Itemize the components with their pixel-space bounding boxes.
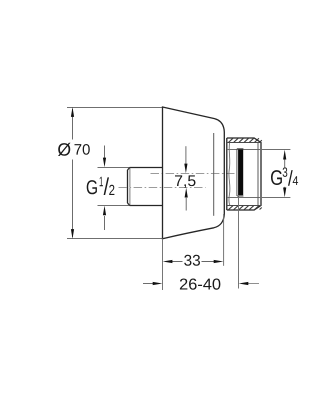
dimension 7,5 upper arrow <box>185 146 187 164</box>
seal face extension line (down) <box>238 197 240 289</box>
rosette inner contour line <box>213 133 215 216</box>
dome right face extension line (down) <box>223 214 225 266</box>
nipple G1/2 top extension line <box>98 167 163 169</box>
body centerline <box>151 173 237 175</box>
union nut break line (wavy) <box>229 143 230 205</box>
nipple centerline <box>119 187 206 189</box>
label G 1/2 <box>87 177 115 195</box>
dimension 26-40 left arrow (outside) <box>143 283 154 285</box>
union nut thread line top with G3/4 extension <box>227 149 290 151</box>
label 26-40 <box>180 279 221 290</box>
nipple chamfer inner line <box>129 168 131 206</box>
dimension 26-40 right arrow (outside) <box>248 283 259 285</box>
nipple G1/2 body <box>128 168 163 206</box>
union nut outline <box>227 138 261 210</box>
dimension 7,5 lower arrow <box>185 198 187 211</box>
dimension Ø70 bottom extension line <box>67 238 163 240</box>
dimension G3/4 lower arrow <box>284 187 286 190</box>
seal washer (black) <box>238 149 243 195</box>
dimension Ø70 top extension line <box>67 107 163 109</box>
union nut inner right wall <box>257 143 259 206</box>
union nut top hatching <box>229 138 262 142</box>
label G 3/4 <box>271 167 298 185</box>
dimension G3/4 upper arrow <box>284 158 286 167</box>
dimension Ø70 arrowhead down <box>71 229 74 239</box>
rosette left face extension line (down) <box>162 239 164 291</box>
dimension 33 left arrowhead <box>163 260 173 263</box>
seal washer outline <box>237 149 244 196</box>
dimension G1/2 lower arrow <box>104 216 106 230</box>
nipple G1/2 bottom extension line <box>98 205 163 207</box>
union nut band inner lines <box>227 143 261 206</box>
dimension G1/2 upper arrow <box>104 146 106 159</box>
label 33 <box>184 255 200 266</box>
label 7,5 <box>175 175 196 188</box>
dimension Ø70 dimension line <box>72 109 74 237</box>
rosette dome outline <box>163 107 225 239</box>
dimension 33 line <box>172 261 215 263</box>
label Ø 70 <box>58 143 71 156</box>
union nut bottom hatching <box>229 206 262 210</box>
dimension 33 right arrowhead <box>214 260 224 263</box>
union nut thread line bottom with G3/4 extension <box>227 197 290 199</box>
dimension Ø70 arrowhead up <box>71 107 74 117</box>
